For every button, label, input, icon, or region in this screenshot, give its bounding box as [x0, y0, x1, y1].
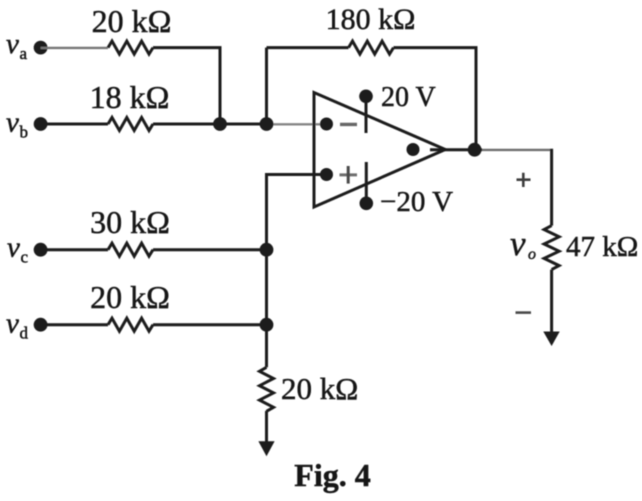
- wire feedback top right: [394, 48, 477, 150]
- node vb terminal: [34, 117, 48, 131]
- wire Rd to summing node: [153, 323, 267, 326]
- label vc: [7, 232, 29, 267]
- resistor RL 47k zigzag: [544, 226, 559, 270]
- op-amp U1 triangle: [314, 93, 445, 208]
- junction dot inverting node: [260, 117, 274, 131]
- wire vd to Rd: [41, 323, 108, 326]
- svg-text:v: v: [7, 232, 20, 264]
- polarity plus sign output: [517, 173, 531, 187]
- positive supply stub: [365, 96, 368, 133]
- label va: [6, 28, 28, 63]
- op-amp inverting pin dot: [320, 118, 333, 131]
- svg-text:v: v: [6, 107, 19, 139]
- node vc terminal: [34, 243, 48, 257]
- resistor Rb 18k zigzag: [108, 118, 153, 131]
- resistor Rd 20k zigzag: [108, 318, 153, 331]
- svg-text:a: a: [20, 44, 28, 63]
- svg-text:v: v: [510, 224, 526, 263]
- junction dot va/vb: [213, 117, 227, 131]
- svg-text:Fig. 4: Fig. 4: [294, 457, 370, 493]
- wire inverting node to op-amp pin: [271, 123, 322, 125]
- label vd: [6, 308, 29, 343]
- junction dot vd node: [260, 318, 274, 332]
- wire output: [430, 148, 482, 151]
- junction dot output node: [468, 143, 482, 157]
- node va terminal: [34, 41, 48, 55]
- svg-text:47 kΩ: 47 kΩ: [566, 231, 638, 263]
- svg-text:20 V: 20 V: [381, 82, 436, 113]
- svg-text:v: v: [6, 28, 19, 60]
- wire noninverting vertical: [267, 175, 327, 368]
- op-amp noninverting pin dot: [320, 168, 333, 181]
- svg-text:20 kΩ: 20 kΩ: [92, 3, 172, 39]
- ground arrow bottom: [258, 441, 274, 456]
- wire output node down to RL: [550, 149, 553, 226]
- ground arrow output: [543, 332, 559, 347]
- op-amp plus sign: [340, 173, 358, 176]
- svg-text:b: b: [20, 123, 29, 142]
- resistor Rg 20k zigzag vertical: [260, 367, 274, 411]
- wire vb to Rb: [41, 123, 108, 126]
- svg-text:180 kΩ: 180 kΩ: [326, 3, 416, 36]
- resistor Rf 180k zigzag: [349, 41, 394, 54]
- wire Rb to inverting input: [153, 123, 271, 126]
- op-amp output dot: [407, 143, 420, 156]
- label vb: [6, 107, 28, 142]
- svg-text:30 kΩ: 30 kΩ: [90, 204, 170, 240]
- wire va to Ra: [41, 47, 108, 49]
- svg-text:20 kΩ: 20 kΩ: [90, 279, 170, 315]
- negative supply stub: [365, 162, 368, 203]
- negative supply dot: [360, 197, 374, 211]
- junction dot vc node: [260, 243, 274, 257]
- svg-text:v: v: [6, 308, 19, 340]
- wire feedback left vertical: [265, 48, 268, 124]
- svg-text:c: c: [21, 248, 29, 267]
- wire vc to Rc: [41, 248, 108, 251]
- svg-text:18 kΩ: 18 kΩ: [90, 79, 170, 115]
- wire output node to load corner: [482, 149, 551, 151]
- polarity minus sign output: [516, 311, 532, 314]
- wire Ra to corner: [153, 48, 220, 124]
- wire RL to ground arrow: [550, 270, 553, 334]
- resistor Rc 30k zigzag: [108, 243, 153, 256]
- svg-text:−20 V: −20 V: [380, 186, 453, 218]
- svg-text:o: o: [528, 246, 536, 263]
- svg-text:20 kΩ: 20 kΩ: [281, 371, 358, 406]
- positive supply dot: [359, 90, 373, 104]
- resistor Ra 20k zigzag: [108, 41, 153, 54]
- svg-text:d: d: [20, 324, 29, 343]
- node vd terminal: [34, 318, 48, 332]
- wire Rg to ground arrow: [265, 411, 268, 445]
- wire feedback top left: [267, 46, 349, 49]
- wire Rc to summing node: [153, 248, 267, 251]
- label vo: [510, 224, 536, 263]
- op-amp minus sign: [340, 123, 357, 126]
